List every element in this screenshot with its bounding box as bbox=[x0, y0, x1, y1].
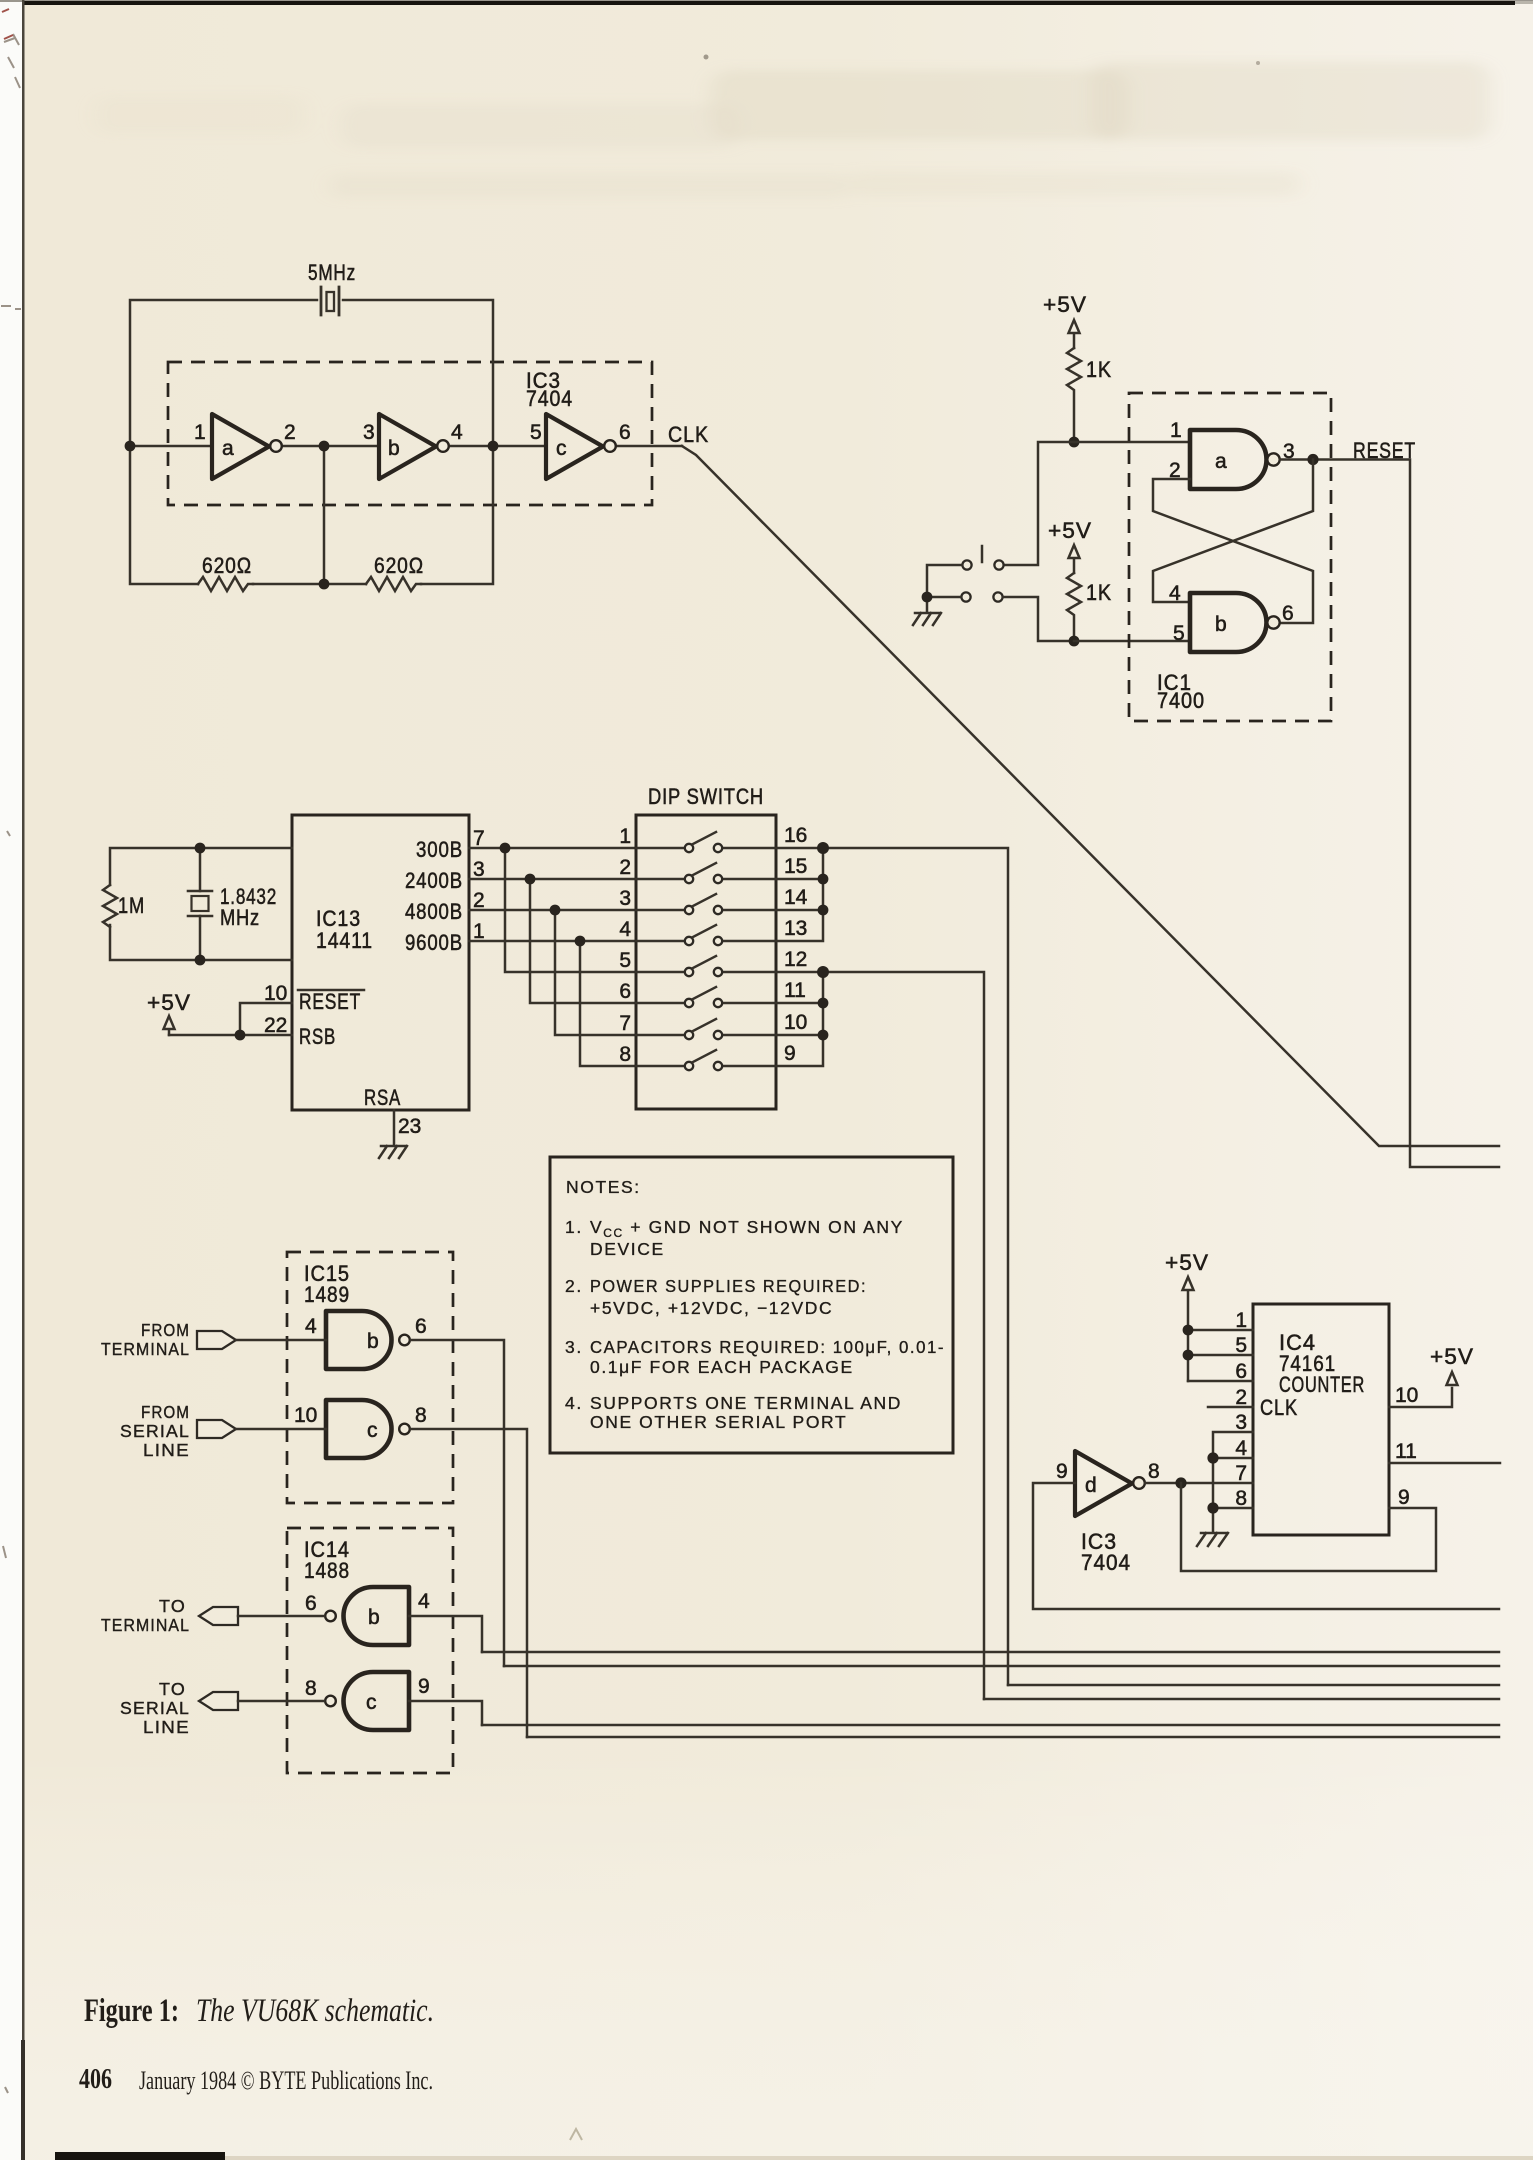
svg-text:b: b bbox=[368, 1606, 380, 1629]
svg-text:6: 6 bbox=[305, 1592, 317, 1615]
svg-text:2400B: 2400B bbox=[405, 868, 463, 893]
wire: pin2 cross-couple from gate b output bbox=[1153, 479, 1313, 623]
svg-text:FROM: FROM bbox=[141, 1402, 190, 1422]
IC13 14411 box bbox=[292, 815, 469, 1110]
svg-text:7400: 7400 bbox=[1157, 688, 1205, 713]
wire: 2400B branch to row6 bbox=[530, 879, 636, 1003]
node dot latch pin5 bbox=[1069, 636, 1080, 647]
wire: pin4 cross-couple from gate a output bbox=[1153, 460, 1313, 603]
pushbutton S1 upper contacts bbox=[962, 560, 971, 569]
svg-text:8: 8 bbox=[305, 1677, 317, 1700]
wire: pin3 bbox=[1213, 1432, 1253, 1531]
NOTES box bbox=[550, 1157, 953, 1453]
svg-text:+5V: +5V bbox=[147, 990, 191, 1015]
svg-text:c: c bbox=[366, 1691, 377, 1714]
svg-text:1: 1 bbox=[1170, 419, 1182, 442]
svg-text:5: 5 bbox=[1235, 1334, 1247, 1357]
svg-text:1: 1 bbox=[619, 825, 631, 848]
svg-text:1: 1 bbox=[1235, 1309, 1247, 1332]
page top black border bbox=[23, 1, 1515, 5]
node dot output a bbox=[1307, 454, 1318, 465]
+5V arrow 2 bbox=[1069, 545, 1080, 573]
svg-text:9: 9 bbox=[1398, 1486, 1410, 1509]
svg-text:4.: 4. bbox=[565, 1393, 583, 1413]
ground (counter) bbox=[1197, 1533, 1228, 1546]
svg-text:1M: 1M bbox=[118, 893, 145, 918]
wire: 2400B to DIP row2 bbox=[469, 878, 636, 881]
wire: tag to gate b bbox=[236, 1339, 326, 1342]
svg-text:5MHz: 5MHz bbox=[308, 260, 356, 285]
wire: branch to RESET pin10 bbox=[240, 1003, 292, 1035]
NAND gate IC1b bbox=[1190, 593, 1267, 652]
svg-text:+5V: +5V bbox=[1430, 1344, 1474, 1369]
svg-text:3: 3 bbox=[363, 421, 375, 444]
svg-text:TERMINAL: TERMINAL bbox=[101, 1615, 190, 1635]
wire: bus line from IC15c bbox=[527, 1736, 1499, 1739]
svg-text:RESET: RESET bbox=[1353, 438, 1416, 463]
svg-text:FROM: FROM bbox=[141, 1320, 190, 1340]
svg-text:11: 11 bbox=[784, 979, 806, 1002]
+5V arrow 1 bbox=[1069, 320, 1080, 348]
svg-text:3.: 3. bbox=[565, 1337, 583, 1357]
svg-text:d: d bbox=[1085, 1474, 1097, 1497]
svg-text:2: 2 bbox=[619, 856, 631, 879]
svg-text:5: 5 bbox=[1173, 622, 1185, 645]
inverter IC3c bbox=[546, 414, 603, 479]
svg-text:TO: TO bbox=[159, 1596, 186, 1616]
svg-text:8: 8 bbox=[619, 1043, 631, 1066]
wire: bus line from DIP row16 bbox=[1008, 1684, 1499, 1687]
bottom-left black bar bbox=[55, 2152, 225, 2160]
wire: pins 16-13 bus bbox=[776, 848, 823, 941]
svg-text:c: c bbox=[367, 1419, 378, 1442]
svg-text:2: 2 bbox=[1235, 1386, 1247, 1409]
wire: tag to gate c bbox=[236, 1428, 326, 1431]
svg-text:3: 3 bbox=[1235, 1411, 1247, 1434]
inverter IC3d bbox=[1075, 1451, 1132, 1516]
svg-text:TO: TO bbox=[159, 1679, 186, 1699]
svg-text:DIP SWITCH: DIP SWITCH bbox=[648, 784, 764, 809]
wire: inverter input from off-page bbox=[1033, 1483, 1499, 1609]
ground (pushbutton) bbox=[913, 613, 941, 625]
svg-text:9: 9 bbox=[1056, 1460, 1068, 1483]
svg-text:VCC + GND NOT SHOWN ON ANY: VCC + GND NOT SHOWN ON ANY bbox=[590, 1217, 904, 1240]
svg-text:a: a bbox=[1215, 450, 1227, 473]
svg-text:10: 10 bbox=[264, 982, 287, 1005]
input tag FROM SERIAL LINE bbox=[197, 1420, 236, 1438]
IC15 1489 dashed box bbox=[287, 1252, 453, 1503]
IC14 1488 dashed box bbox=[287, 1528, 453, 1773]
wire: oscillator top loop bbox=[130, 300, 493, 446]
wire: lower-left contact to ground node bbox=[927, 597, 961, 612]
NAND gate IC1a bbox=[1190, 430, 1267, 489]
svg-text:4: 4 bbox=[1169, 582, 1181, 605]
input tag FROM TERMINAL bbox=[197, 1331, 236, 1349]
svg-text:SERIAL: SERIAL bbox=[120, 1421, 190, 1441]
svg-text:4: 4 bbox=[619, 918, 631, 941]
svg-text:9600B: 9600B bbox=[405, 930, 463, 955]
svg-text:406: 406 bbox=[79, 2064, 112, 2095]
IC1 7400 dashed box bbox=[1129, 393, 1331, 721]
svg-text:b: b bbox=[367, 1330, 379, 1353]
wire: crystal top loop bbox=[110, 848, 292, 960]
faint caret mark bottom middle bbox=[570, 2129, 582, 2140]
svg-text:+5V: +5V bbox=[1048, 518, 1092, 543]
svg-text:+5V: +5V bbox=[1043, 292, 1087, 317]
wire: pin5 bbox=[1188, 1354, 1253, 1357]
svg-text:10: 10 bbox=[784, 1011, 807, 1034]
svg-text:6: 6 bbox=[1282, 602, 1294, 625]
crystal XTAL2 1.8432MHz bbox=[188, 891, 212, 916]
receiver gate IC15b bbox=[326, 1311, 392, 1369]
svg-text:1.: 1. bbox=[565, 1217, 583, 1237]
svg-text:12: 12 bbox=[784, 948, 807, 971]
wire: mid vertical from node B bbox=[323, 446, 326, 584]
wire: pin6 bbox=[1188, 1380, 1253, 1383]
wire: 300B branch to row5 bbox=[505, 848, 636, 972]
svg-text:9: 9 bbox=[784, 1042, 796, 1065]
svg-text:ONE OTHER SERIAL PORT: ONE OTHER SERIAL PORT bbox=[590, 1412, 847, 1432]
DIP switch box bbox=[636, 815, 776, 1109]
receiver gate IC15c bbox=[326, 1400, 392, 1458]
wire: IC14c input from bus bbox=[409, 1701, 482, 1725]
svg-text:RESET: RESET bbox=[299, 989, 361, 1014]
node dot ground bbox=[922, 592, 933, 603]
IC3 7404 dashed box bbox=[168, 362, 652, 505]
wire: IC14b input from bus bbox=[409, 1616, 482, 1652]
svg-text:3: 3 bbox=[619, 887, 631, 910]
wire: crystal branch vertical bbox=[199, 848, 202, 960]
svg-text:10: 10 bbox=[294, 1404, 317, 1427]
svg-text:13: 13 bbox=[784, 917, 807, 940]
wire: pins 12-9 bus bbox=[776, 972, 823, 1066]
wire: row16 to right vertical bbox=[776, 848, 1008, 1685]
wire: bus line from IC14b bbox=[482, 1651, 1499, 1654]
svg-text:10: 10 bbox=[1395, 1384, 1418, 1407]
pushbutton S1 lower contacts bbox=[961, 592, 970, 601]
wire: pin8 bbox=[1213, 1507, 1253, 1510]
wire: lower-right contact to 1K node bbox=[1003, 597, 1074, 641]
svg-text:6: 6 bbox=[415, 1315, 427, 1338]
svg-text:c: c bbox=[556, 437, 567, 460]
wire: IC15b output down to bus bbox=[411, 1340, 504, 1666]
svg-text:5: 5 bbox=[619, 949, 631, 972]
svg-text:1K: 1K bbox=[1086, 357, 1112, 382]
svg-text:TERMINAL: TERMINAL bbox=[101, 1339, 190, 1359]
svg-text:2.: 2. bbox=[565, 1276, 583, 1296]
svg-text:300B: 300B bbox=[416, 837, 463, 862]
wire: main signal line bbox=[130, 445, 682, 448]
svg-text:RSA: RSA bbox=[364, 1085, 401, 1110]
svg-text:b: b bbox=[1215, 613, 1227, 636]
svg-text:14411: 14411 bbox=[316, 928, 373, 953]
svg-text:620Ω: 620Ω bbox=[374, 553, 424, 578]
svg-text:The VU68K schematic.: The VU68K schematic. bbox=[196, 1993, 434, 2029]
node dots crystal bbox=[195, 843, 206, 854]
resistor R2 620ohm bbox=[366, 577, 421, 591]
inverter IC3a bbox=[212, 414, 269, 479]
wire: bus line from IC14c bbox=[482, 1724, 1499, 1727]
wire: pin4 bbox=[1213, 1457, 1253, 1460]
switch S1 row8 bbox=[636, 1050, 776, 1070]
svg-text:15: 15 bbox=[784, 855, 807, 878]
wire: bus line from DIP row12 bbox=[984, 1698, 1499, 1701]
+5V arrow 4 bbox=[1183, 1277, 1194, 1381]
svg-text:Figure 1:: Figure 1: bbox=[84, 1993, 179, 2029]
switch S1 row1 bbox=[636, 832, 776, 852]
wire: upper-left contact to ground node bbox=[927, 565, 962, 597]
switch S1 row4 bbox=[636, 925, 776, 945]
wire: 4800B to DIP row3 bbox=[469, 909, 636, 912]
svg-text:8: 8 bbox=[415, 1404, 427, 1427]
svg-text:CLK: CLK bbox=[668, 422, 709, 447]
driver gate IC14c bbox=[344, 1672, 410, 1730]
switch S1 row5 bbox=[636, 956, 776, 976]
switch S1 row6 bbox=[636, 987, 776, 1007]
node dots bbox=[125, 441, 136, 452]
svg-text:SERIAL: SERIAL bbox=[120, 1698, 190, 1718]
wire: node to NAND b pin5 bbox=[1074, 640, 1190, 643]
svg-text:1488: 1488 bbox=[304, 1558, 350, 1583]
wire: inverter output to pin7 bbox=[1145, 1482, 1253, 1485]
wire: pin1 bbox=[1188, 1329, 1253, 1332]
svg-text:14: 14 bbox=[784, 886, 808, 909]
wire: 9600B to DIP row4 bbox=[469, 940, 636, 943]
left margin scan marks bbox=[1, 34, 21, 2093]
switch S1 row7 bbox=[636, 1019, 776, 1039]
svg-text:NOTES:: NOTES: bbox=[566, 1177, 641, 1197]
resistor R1 620ohm bbox=[198, 577, 253, 591]
wire: row12 to right vertical bbox=[776, 972, 984, 1699]
resistor 1M bbox=[103, 885, 117, 927]
output tag TO TERMINAL bbox=[199, 1607, 238, 1625]
wire: gate a output to RESET bbox=[1280, 460, 1499, 1168]
svg-text:RSB: RSB bbox=[299, 1024, 336, 1049]
wire: 9600B branch to row8 bbox=[580, 941, 636, 1066]
wire: 4800B branch to row7 bbox=[555, 910, 636, 1035]
svg-text:7404: 7404 bbox=[526, 386, 573, 411]
svg-text:0.1μF FOR EACH PACKAGE: 0.1μF FOR EACH PACKAGE bbox=[590, 1357, 854, 1377]
wire: IC15c output down to bus bbox=[411, 1429, 527, 1737]
RSA pin stub bbox=[393, 1110, 396, 1144]
wire: pin9 feedback loop bbox=[1181, 1483, 1436, 1571]
svg-text:7: 7 bbox=[1235, 1462, 1247, 1485]
page top gray edge bbox=[0, 0, 1533, 2]
svg-text:1K: 1K bbox=[1086, 580, 1112, 605]
svg-text:7: 7 bbox=[473, 827, 485, 850]
svg-text:4: 4 bbox=[451, 421, 463, 444]
svg-text:4800B: 4800B bbox=[405, 899, 463, 924]
svg-text:6: 6 bbox=[619, 421, 631, 444]
svg-text:+5VDC, +12VDC, −12VDC: +5VDC, +12VDC, −12VDC bbox=[590, 1298, 833, 1318]
bottom subtle edge darkening bbox=[225, 2156, 1533, 2160]
svg-text:CAPACITORS REQUIRED: 100μF, 0.: CAPACITORS REQUIRED: 100μF, 0.01- bbox=[590, 1337, 945, 1357]
svg-text:8: 8 bbox=[1235, 1487, 1247, 1510]
svg-text:b: b bbox=[388, 437, 400, 460]
svg-text:COUNTER: COUNTER bbox=[1279, 1372, 1365, 1397]
switch S1 row2 bbox=[636, 863, 776, 883]
svg-text:POWER SUPPLIES REQUIRED:: POWER SUPPLIES REQUIRED: bbox=[590, 1276, 867, 1296]
resistor 1K (upper) bbox=[1067, 348, 1081, 442]
resistor 1K (lower) bbox=[1067, 573, 1081, 641]
svg-text:CLK: CLK bbox=[1260, 1395, 1298, 1420]
svg-text:620Ω: 620Ω bbox=[202, 553, 252, 578]
wire: node to NAND a pin1 bbox=[1074, 441, 1190, 444]
+5V arrow 5 bbox=[1447, 1372, 1458, 1385]
svg-text:January 1984 © BYTE Publicatio: January 1984 © BYTE Publications Inc. bbox=[139, 2066, 433, 2095]
wire: +5V to RSB pin22 bbox=[169, 1034, 292, 1037]
svg-text:2: 2 bbox=[473, 889, 485, 912]
left border darker bottom segment bbox=[21, 2040, 25, 2160]
svg-text:+5V: +5V bbox=[1165, 1250, 1209, 1275]
svg-text:DEVICE: DEVICE bbox=[590, 1239, 665, 1259]
faint print bleed-through band bbox=[95, 62, 1490, 198]
page left border line bbox=[22, 0, 25, 2160]
svg-text:4: 4 bbox=[1235, 1437, 1247, 1460]
driver gate IC14b bbox=[344, 1587, 410, 1645]
svg-text:a: a bbox=[222, 437, 234, 460]
wire: 300B to DIP row1 bbox=[469, 847, 636, 850]
svg-text:5: 5 bbox=[530, 421, 542, 444]
pushbutton plunger bbox=[981, 546, 984, 562]
svg-text:4: 4 bbox=[305, 1315, 317, 1338]
svg-text:LINE: LINE bbox=[143, 1717, 190, 1737]
output tag TO SERIAL LINE bbox=[199, 1692, 238, 1710]
inverter IC3b bbox=[379, 414, 436, 479]
node dot RSB bbox=[235, 1030, 246, 1041]
svg-text:LINE: LINE bbox=[143, 1440, 190, 1460]
svg-text:3: 3 bbox=[473, 858, 485, 881]
svg-text:1: 1 bbox=[194, 421, 206, 444]
ground (RSA) bbox=[379, 1146, 407, 1158]
wire: gate b bubble to tag bbox=[238, 1615, 324, 1618]
svg-text:6: 6 bbox=[619, 980, 631, 1003]
svg-text:23: 23 bbox=[398, 1115, 421, 1138]
IC4 74161 box bbox=[1253, 1304, 1389, 1535]
wire: pin10 to +5V bbox=[1389, 1388, 1452, 1407]
wire: bottom feedback with resistors bbox=[130, 446, 493, 584]
svg-text:9: 9 bbox=[418, 1675, 430, 1698]
svg-text:8: 8 bbox=[1148, 1460, 1160, 1483]
wire: node to pushbutton upper contact bbox=[1004, 442, 1074, 565]
switch S1 row3 bbox=[636, 894, 776, 914]
+5V arrow 3 bbox=[164, 1016, 175, 1035]
wire: pin2 CLK stub bbox=[1208, 1406, 1253, 1409]
svg-text:11: 11 bbox=[1395, 1440, 1417, 1463]
svg-text:22: 22 bbox=[264, 1014, 287, 1037]
wire: bus line from IC15b bbox=[504, 1665, 1499, 1668]
svg-text:SUPPORTS ONE TERMINAL AND: SUPPORTS ONE TERMINAL AND bbox=[590, 1393, 902, 1413]
svg-text:7404: 7404 bbox=[1081, 1550, 1131, 1575]
wire: pin11 out bbox=[1389, 1462, 1500, 1465]
svg-text:1: 1 bbox=[473, 920, 485, 943]
crystal XTAL1 5MHz bbox=[321, 287, 339, 315]
svg-text:6: 6 bbox=[1235, 1360, 1247, 1383]
svg-text:MHz: MHz bbox=[220, 905, 260, 930]
wire: CLK diagonal to lower right bbox=[682, 446, 1499, 1146]
svg-text:2: 2 bbox=[284, 421, 296, 444]
node dot latch pin1 bbox=[1069, 437, 1080, 448]
svg-text:7: 7 bbox=[619, 1012, 631, 1035]
svg-text:16: 16 bbox=[784, 824, 807, 847]
svg-text:1489: 1489 bbox=[304, 1282, 350, 1307]
wire: gate c bubble to tag bbox=[238, 1700, 324, 1703]
svg-text:4: 4 bbox=[418, 1590, 430, 1613]
